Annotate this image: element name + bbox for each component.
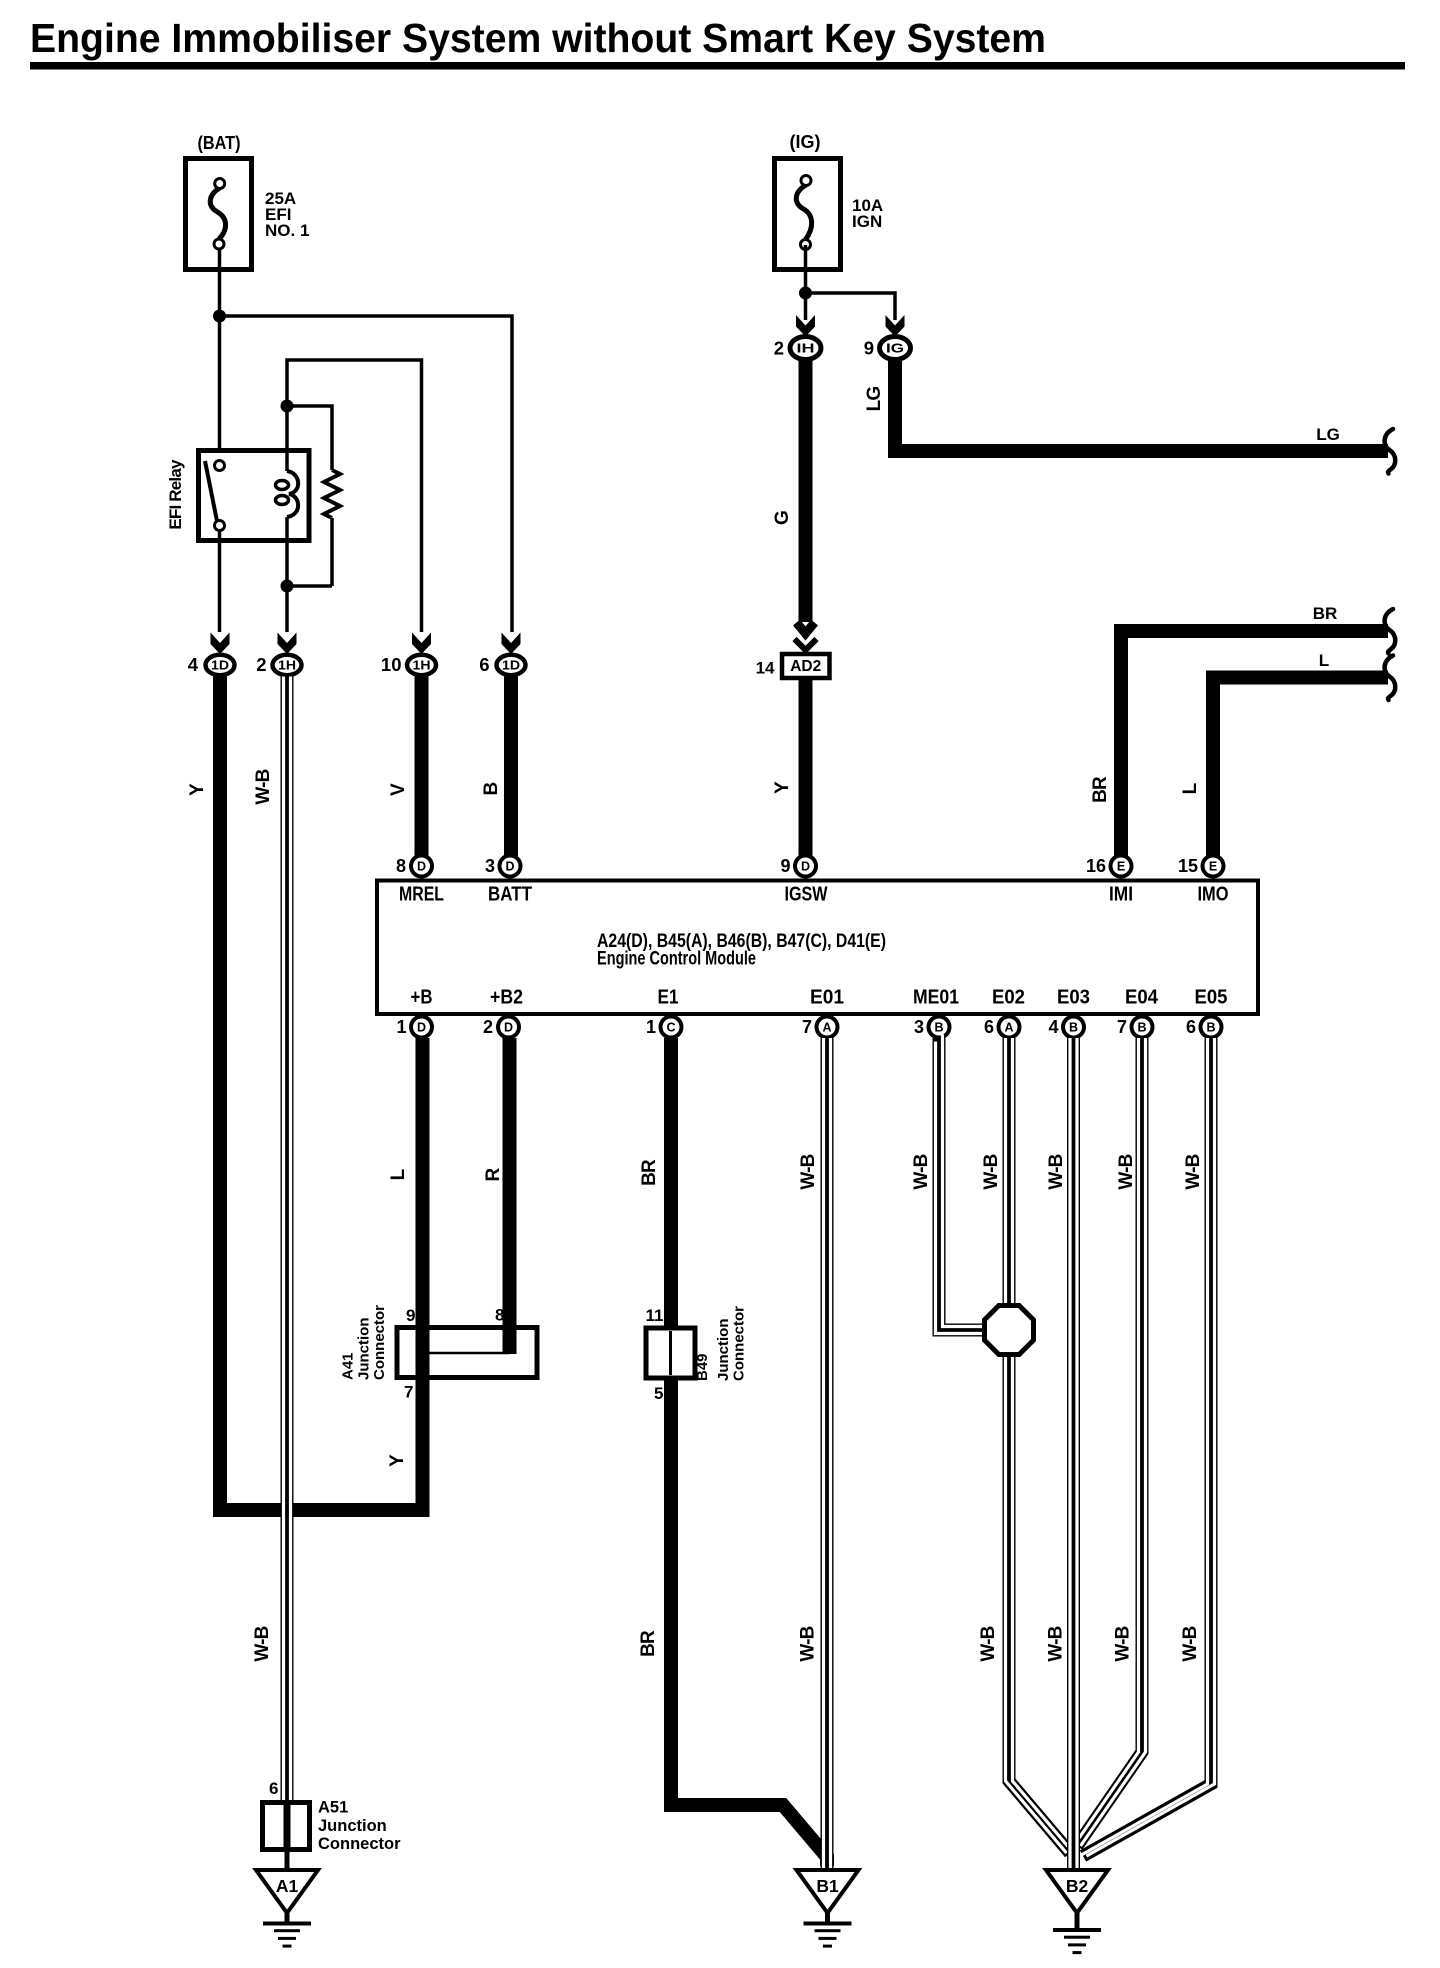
svg-text:IMI: IMI [1109,884,1133,906]
label W-B E05 lower [1180,1626,1201,1661]
label W-B E02 upper [981,1154,1002,1189]
svg-text:9: 9 [864,338,874,359]
wire continuation curl LG [1385,429,1396,474]
title underline [30,62,1405,70]
svg-text:W-B: W-B [1046,1626,1067,1661]
svg-text:W-B: W-B [1046,1154,1067,1189]
svg-text:1: 1 [396,1017,406,1037]
label W-B E03 upper [1046,1154,1067,1189]
ECM pin 15 E IMO [1178,856,1224,877]
label 25A EFI NO. 1 [265,189,309,240]
wire G from 2 IH to AD2 [799,360,813,623]
svg-text:2: 2 [256,654,266,675]
svg-text:BR: BR [1313,604,1338,623]
wire A51 to ground A1 [285,1849,290,1871]
connector pin 4 1D [188,654,235,675]
svg-text:Connector: Connector [371,1305,388,1380]
svg-text:14: 14 [756,659,775,678]
wire continuation curl L [1385,656,1396,701]
arrow into connector 10 1H [412,633,431,655]
junction connector B49 box [646,1328,695,1378]
svg-text:6: 6 [984,1017,994,1037]
label W-B E01 upper [798,1154,819,1189]
label G [772,511,793,525]
wire LG from 9 IG to right [895,360,1388,452]
svg-text:E1: E1 [658,987,679,1009]
svg-text:B: B [481,782,502,795]
label E04 [1125,987,1159,1009]
wire Y from AD2 to IGSW [799,677,813,856]
svg-text:Junction: Junction [318,1817,387,1835]
svg-text:R: R [483,1167,504,1181]
wire W-B from E01 to ground B1 [824,1038,831,1871]
svg-text:1H: 1H [413,658,431,673]
label BR horizontal [1313,604,1338,623]
arrow into connector 4 1D [211,633,230,655]
svg-text:W-B: W-B [252,1626,273,1661]
ECM pin 1 D +B [396,1017,432,1038]
ECM pin 3 D BATT [485,856,521,877]
svg-text:A41: A41 [340,1352,357,1380]
svg-text:Y: Y [772,781,793,794]
label +B2 [490,987,523,1009]
wire W-B from E05 to ground B2 [1080,1038,1215,1856]
svg-text:G: G [772,511,793,525]
connector pin 10 1H [381,654,436,675]
svg-text:1H: 1H [278,658,296,673]
svg-text:E01: E01 [810,987,844,1009]
label 10A IGN [852,196,883,231]
label W-B E03 lower [1046,1626,1067,1661]
svg-text:10: 10 [381,654,402,675]
svg-text:W-B: W-B [798,1154,819,1189]
title: Engine Immobiliser System without Smart Key System [30,15,1046,61]
wire BR from E1 to B49 [664,1038,678,1330]
label IMI [1109,884,1133,906]
svg-text:Connector: Connector [318,1835,401,1853]
svg-text:L: L [388,1168,409,1180]
svg-text:8: 8 [495,1306,504,1325]
label E1 [658,987,679,1009]
arrow into connector 9 IG [886,315,905,337]
wire IG fuse down [804,245,808,320]
arrow into connector 2 1H [278,633,297,655]
wire BR from right to IMI [1121,631,1388,856]
label B49 Junction Connector [694,1306,748,1381]
wire resistor to coil node [287,584,332,588]
svg-text:B: B [1206,1021,1215,1035]
label A51 Junction Connector [318,1799,401,1854]
svg-text:V: V [388,783,409,796]
svg-text:B: B [934,1021,943,1035]
svg-text:6: 6 [1186,1017,1196,1037]
svg-text:BR: BR [638,1630,659,1657]
svg-text:L: L [1180,782,1201,794]
ECM pin 6 A E02 [984,1017,1020,1038]
fuse 10A IGN box [775,159,841,270]
svg-text:W-B: W-B [1113,1626,1134,1661]
wire R from +B2 to A41 pin 8 [503,1038,517,1354]
svg-text:6: 6 [269,1779,278,1798]
connector pin 6 1D [479,654,525,675]
svg-text:D: D [417,860,426,874]
svg-text:D: D [417,1021,426,1035]
svg-text:AD2: AD2 [790,658,821,675]
svg-text:L: L [1319,651,1329,670]
wire resistor bottom [330,518,334,586]
svg-text:B1: B1 [816,1876,839,1896]
svg-text:B49: B49 [694,1353,711,1381]
svg-text:4: 4 [188,654,199,675]
relay switch contacts [205,461,225,531]
wire relay coil to connector 10 1H [287,360,422,632]
noise filter octagon [985,1306,1034,1355]
label A41 pin 7 [404,1383,413,1402]
junction dot IG node [799,287,812,300]
wire BAT node to relay switch [218,316,222,460]
label V [388,783,409,796]
label (BAT) [198,133,241,153]
junction connector A51 box [263,1803,310,1850]
ECM pin 7 B E04 [1117,1017,1153,1038]
label E02 [992,987,1025,1009]
wire W-B from E03 to ground B2 [1070,1038,1077,1871]
svg-text:8: 8 [396,856,406,876]
label E05 [1195,987,1228,1009]
label W-B E04 upper [1116,1154,1137,1189]
arrow into connector 2 IH [796,315,815,337]
svg-text:9: 9 [780,856,790,876]
ECM pin 4 B E03 [1048,1017,1084,1038]
svg-text:D: D [505,860,514,874]
svg-text:EFI Relay: EFI Relay [166,459,185,530]
wire W-B from E04 to ground B2 [1074,1038,1146,1846]
svg-text:+B2: +B2 [490,987,523,1009]
svg-text:1D: 1D [502,658,520,673]
label E01 [810,987,844,1009]
svg-text:15: 15 [1178,856,1198,876]
svg-text:BATT: BATT [488,884,532,906]
svg-text:7: 7 [404,1383,413,1402]
wire BAT fuse to junction [218,249,222,316]
label R [483,1167,504,1181]
svg-text:Y: Y [187,783,208,796]
ECM pin 8 D MREL [396,856,432,877]
label IMO [1198,884,1229,906]
label BR upper [639,1159,660,1186]
arrow into connector 6 1D [502,633,521,655]
label L vertical [1180,782,1201,794]
wire W-B from E02 via noise filter to ground B2 [1006,1038,1074,1853]
svg-text:LG: LG [1316,425,1340,444]
label W-B upper left [253,769,274,804]
relay coil [276,450,299,543]
connector pin 2 IH [774,337,821,360]
label A41 pin 8 [495,1306,504,1325]
label IGSW [785,884,828,906]
label W-B lower left [252,1626,273,1661]
label W-B E05 upper [1183,1154,1204,1189]
label W-B E01 lower [798,1626,819,1661]
svg-text:W-B: W-B [1180,1626,1201,1661]
ground B2 [1046,1870,1108,1954]
svg-text:3: 3 [914,1017,924,1037]
svg-text:ME01: ME01 [913,987,959,1009]
wire relay coil to connector 2 1H [285,543,289,632]
svg-text:E05: E05 [1195,987,1228,1009]
label (IG) [790,132,821,152]
label Y A41 pin7 wire [387,1454,408,1467]
svg-text:+B: +B [411,987,433,1009]
svg-text:4: 4 [1048,1017,1058,1037]
label A51 pin 6 [269,1779,278,1798]
label A41 pin 9 [406,1306,415,1325]
svg-text:BR: BR [639,1159,660,1186]
svg-text:IGSW: IGSW [785,884,828,906]
label W-B E04 lower [1113,1626,1134,1661]
label W-B E02 lower [978,1626,999,1661]
svg-text:W-B: W-B [911,1154,932,1189]
svg-text:IGN: IGN [852,212,882,231]
label E03 [1057,987,1090,1009]
label ECM title text [597,931,886,970]
relay resistor [324,470,340,518]
svg-text:W-B: W-B [1116,1154,1137,1189]
svg-text:2: 2 [483,1017,493,1037]
connector pin 2 1H [256,654,301,675]
wire W-B from 2 1H to A51 [284,677,291,1804]
relay EFI Relay box [199,451,310,541]
junction dot BAT node [213,310,226,323]
label BATT [488,884,532,906]
label L horizontal [1319,651,1329,670]
svg-text:W-B: W-B [981,1154,1002,1189]
ground B1 [797,1870,859,1948]
wire A41 internal bus [423,1352,510,1355]
svg-text:2: 2 [774,338,784,359]
ECM pin 16 E IMI [1086,856,1132,877]
svg-text:6: 6 [479,654,489,675]
ECM pin 3 B ME01 [914,1017,950,1038]
junction dot A41 internal [417,1347,429,1359]
connector AD2 box [782,654,830,678]
svg-text:A51: A51 [318,1799,348,1817]
svg-text:E: E [1209,860,1217,874]
svg-text:11: 11 [646,1306,664,1325]
svg-text:5: 5 [654,1384,663,1403]
wire BR from B49 to ground B1 [671,1376,827,1866]
wire V from 10 1H to MREL [415,677,429,857]
svg-text:7: 7 [802,1017,812,1037]
junction dot coil-resistor node [281,580,294,593]
svg-text:(BAT): (BAT) [198,133,241,153]
svg-text:W-B: W-B [1183,1154,1204,1189]
svg-text:Engine Immobiliser System with: Engine Immobiliser System without Smart … [30,15,1046,61]
label 14 [756,659,775,678]
label EFI Relay [166,459,185,530]
wire relay switch to connector 4 1D [218,530,222,632]
svg-text:W-B: W-B [253,769,274,804]
svg-text:W-B: W-B [978,1626,999,1661]
fuse 25A EFI NO.1 box [186,159,252,270]
svg-text:A: A [822,1021,831,1035]
svg-text:A1: A1 [276,1876,299,1896]
label L +B wire [388,1168,409,1180]
ECM pin 9 D IGSW [780,856,816,877]
label BR vertical [1090,776,1111,803]
svg-text:Junction: Junction [356,1318,373,1381]
svg-text:1: 1 [646,1017,656,1037]
B49 internal divider [669,1331,672,1375]
label LG vertical [864,387,885,412]
A51 internal divider [284,1805,291,1849]
svg-text:IMO: IMO [1198,884,1229,906]
svg-text:IH: IH [797,341,815,356]
svg-text:C: C [666,1021,675,1035]
svg-text:Engine Control Module: Engine Control Module [597,949,756,970]
junction connector A41 box [397,1328,537,1378]
wire continuation curl BR [1385,609,1396,654]
svg-text:Y: Y [387,1454,408,1467]
svg-text:B: B [1137,1021,1146,1035]
double chevron into AD2 [795,623,817,651]
svg-text:D: D [504,1021,513,1035]
label B49 pin 5 [654,1384,663,1403]
svg-text:LG: LG [864,387,885,412]
ECM pin 2 D +B2 [483,1017,519,1038]
svg-text:D: D [801,860,810,874]
fuse element symbol (IG) [796,176,811,250]
svg-text:NO. 1: NO. 1 [265,221,309,240]
label MREL [399,884,444,906]
svg-text:IG: IG [886,341,904,356]
label BR lower [638,1630,659,1657]
connector pin 9 IG [864,337,911,360]
ECM pin 7 A E01 [802,1017,838,1038]
label A41 Junction Connector [340,1305,388,1380]
svg-text:B2: B2 [1066,1876,1089,1896]
svg-text:E04: E04 [1125,987,1159,1009]
wire W-B from ME01 to noise filter [936,1035,990,1334]
svg-text:W-B: W-B [798,1626,819,1661]
ground A1 [256,1870,318,1948]
fuse element symbol (BAT) [210,179,225,250]
svg-text:3: 3 [485,856,495,876]
junction dot relay coil branch [281,400,294,413]
label B [481,782,502,795]
svg-text:A: A [1004,1021,1013,1035]
label Y left wire [187,783,208,796]
wire L from right to IMO [1213,678,1388,857]
svg-text:7: 7 [1117,1017,1127,1037]
svg-text:1D: 1D [211,658,229,673]
svg-text:Junction: Junction [715,1319,732,1382]
label B49 pin 11 [646,1306,664,1325]
label +B [411,987,433,1009]
wire BAT node to connector 6 1D [220,316,513,632]
label ME01 [913,987,959,1009]
wire Y / L from 4 1D via A41 to +B [220,677,423,1511]
svg-text:MREL: MREL [399,884,444,906]
label W-B ME01 [911,1154,932,1189]
ECM Engine Control Module box [377,881,1258,1015]
svg-text:9: 9 [406,1306,415,1325]
label Y AD2-IGSW [772,781,793,794]
wire IG node to connector 9 IG [806,293,896,320]
svg-text:E02: E02 [992,987,1025,1009]
svg-text:(IG): (IG) [790,132,821,152]
wire branch to resistor top [287,406,332,470]
wire B from 6 1D to BATT [504,677,518,857]
ECM pin 1 C E1 [646,1017,682,1038]
svg-text:E: E [1117,860,1125,874]
ECM pin 6 B E05 [1186,1017,1222,1038]
svg-text:Connector: Connector [731,1306,748,1381]
svg-text:BR: BR [1090,776,1111,803]
svg-text:B: B [1069,1021,1078,1035]
svg-text:E03: E03 [1057,987,1090,1009]
label LG horizontal [1316,425,1340,444]
svg-text:16: 16 [1086,856,1106,876]
